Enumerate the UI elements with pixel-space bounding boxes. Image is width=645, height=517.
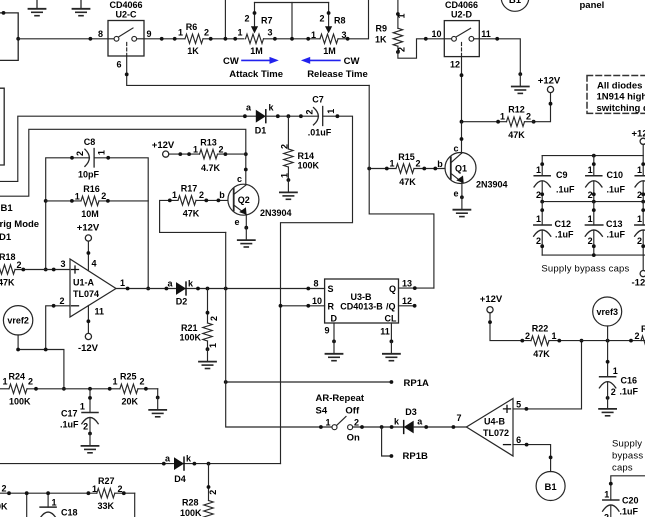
svg-text:S4: S4 bbox=[316, 405, 328, 416]
capacitor C9 bbox=[534, 156, 575, 202]
svg-text:47K: 47K bbox=[399, 177, 416, 187]
capacitor C10 bbox=[586, 156, 626, 202]
svg-text:1: 1 bbox=[178, 28, 183, 38]
ground bbox=[512, 74, 529, 93]
svg-text:10: 10 bbox=[312, 296, 322, 306]
svg-text:e: e bbox=[234, 217, 239, 227]
resistor R14 bbox=[279, 116, 319, 182]
svg-text:9: 9 bbox=[146, 29, 151, 39]
-12V terminal bbox=[78, 333, 99, 354]
svg-text:1: 1 bbox=[193, 145, 198, 155]
vref2 terminal bbox=[3, 306, 32, 335]
svg-text:1: 1 bbox=[604, 490, 609, 500]
junction R13 bbox=[244, 152, 248, 156]
svg-text:33K: 33K bbox=[98, 501, 115, 511]
diode D1 bbox=[246, 103, 275, 136]
junction bbox=[279, 304, 283, 308]
release CW arrow bbox=[301, 57, 340, 64]
svg-text:20K: 20K bbox=[122, 397, 139, 407]
node bbox=[209, 37, 213, 41]
capacitor C18 bbox=[40, 491, 78, 517]
junction bbox=[540, 200, 544, 204]
svg-text:rig Mode: rig Mode bbox=[0, 219, 39, 230]
svg-text:1: 1 bbox=[120, 278, 125, 288]
svg-text:Off: Off bbox=[345, 405, 360, 416]
svg-text:Supply: Supply bbox=[612, 438, 642, 449]
node bbox=[306, 304, 310, 308]
junction main row at x=18.2 bbox=[16, 37, 20, 41]
svg-text:1: 1 bbox=[637, 214, 642, 224]
node bbox=[162, 462, 166, 466]
-12 terminal bbox=[632, 271, 645, 289]
junction C17 bbox=[88, 387, 92, 391]
wire top bus between R7 and R8 wipers bbox=[255, 2, 329, 4]
svg-text:R2: R2 bbox=[641, 324, 645, 334]
wire +12V to R22 bbox=[490, 313, 531, 341]
resistor R21 bbox=[180, 289, 219, 352]
node bbox=[16, 348, 20, 352]
svg-text:R24: R24 bbox=[9, 372, 26, 382]
svg-text:2: 2 bbox=[637, 236, 642, 246]
resistor R23 (clipped) bbox=[634, 324, 645, 345]
svg-text:1: 1 bbox=[397, 13, 407, 18]
svg-text:c: c bbox=[237, 174, 242, 184]
ground bbox=[199, 349, 216, 368]
svg-text:47K: 47K bbox=[508, 130, 525, 140]
svg-text:2: 2 bbox=[28, 377, 33, 387]
svg-text:9: 9 bbox=[324, 326, 329, 336]
svg-text:2: 2 bbox=[101, 191, 106, 201]
svg-text:+12V: +12V bbox=[77, 223, 100, 234]
svg-text:+12V: +12V bbox=[152, 140, 175, 151]
node top-left stub dot bbox=[2, 11, 6, 15]
svg-text:1: 1 bbox=[613, 366, 618, 376]
node bbox=[557, 339, 561, 343]
svg-text:1M: 1M bbox=[323, 46, 336, 56]
ground bbox=[149, 398, 166, 417]
svg-text:C20: C20 bbox=[622, 496, 639, 506]
wire vref2 to R24 row bbox=[18, 335, 64, 389]
svg-text:2: 2 bbox=[209, 316, 219, 321]
svg-text:1: 1 bbox=[389, 159, 394, 169]
bottom row left (clipped) bbox=[0, 484, 97, 512]
node bbox=[319, 425, 323, 429]
wire R13 to Q2 collector line bbox=[218, 153, 246, 155]
svg-text:1K: 1K bbox=[375, 35, 387, 45]
node bbox=[87, 251, 91, 255]
svg-text:D1: D1 bbox=[0, 232, 12, 243]
svg-text:1: 1 bbox=[536, 165, 541, 175]
svg-text:bypass: bypass bbox=[612, 451, 643, 462]
svg-text:.1uF: .1uF bbox=[620, 387, 639, 397]
svg-text:1K: 1K bbox=[187, 46, 199, 56]
svg-text:D1: D1 bbox=[255, 126, 267, 136]
svg-text:R: R bbox=[328, 302, 335, 312]
junction R22 row bbox=[580, 339, 584, 343]
junction bbox=[44, 348, 48, 352]
resistor R12 bbox=[460, 105, 534, 141]
svg-text:RP1A: RP1A bbox=[404, 378, 429, 389]
svg-text:2: 2 bbox=[16, 260, 21, 270]
node bbox=[629, 339, 633, 343]
node bbox=[244, 168, 248, 172]
svg-text:100K: 100K bbox=[9, 397, 31, 407]
junction bbox=[290, 37, 294, 41]
svg-text:CL: CL bbox=[385, 314, 397, 324]
ground bbox=[453, 197, 470, 216]
svg-text:C17: C17 bbox=[61, 409, 78, 419]
+12 terminal (top right) bbox=[632, 129, 645, 145]
svg-text:.1uF: .1uF bbox=[555, 230, 574, 240]
svg-text:2: 2 bbox=[634, 331, 639, 341]
node bbox=[346, 37, 350, 41]
junction bbox=[641, 200, 645, 204]
svg-text:.1uF: .1uF bbox=[607, 230, 626, 240]
node bbox=[306, 37, 310, 41]
svg-text:2N3904: 2N3904 bbox=[476, 180, 508, 190]
svg-text:2: 2 bbox=[536, 236, 541, 246]
svg-text:2: 2 bbox=[611, 387, 616, 397]
svg-text:CD4066: CD4066 bbox=[445, 0, 478, 10]
node bbox=[390, 425, 394, 429]
svg-text:C10: C10 bbox=[607, 170, 624, 180]
wire R27 drop bbox=[134, 493, 136, 517]
node bbox=[460, 195, 464, 199]
svg-text:2: 2 bbox=[1, 484, 6, 494]
diode D4 bbox=[165, 454, 192, 485]
svg-text:1: 1 bbox=[96, 150, 106, 155]
junction RP1B bbox=[380, 425, 384, 429]
node bbox=[156, 396, 160, 400]
node bbox=[106, 156, 110, 160]
svg-text:1: 1 bbox=[311, 30, 316, 40]
node bbox=[460, 73, 464, 77]
junction bbox=[25, 491, 29, 495]
junction bbox=[224, 380, 228, 384]
junction R16 row bbox=[44, 199, 48, 203]
svg-text:Supply bypass caps: Supply bypass caps bbox=[541, 264, 629, 275]
wire branch x=26.7 down bbox=[26, 493, 28, 517]
svg-text:R22: R22 bbox=[532, 324, 549, 334]
node bbox=[413, 286, 417, 290]
svg-text:b: b bbox=[219, 190, 225, 200]
wire D3 to U4-B pin 7 bbox=[414, 426, 467, 428]
wire R9 to U2-D pin 10 bbox=[398, 39, 444, 58]
svg-text:100K: 100K bbox=[180, 508, 202, 517]
wire U2-C pin 9 to R6 bbox=[144, 38, 185, 40]
svg-text:1: 1 bbox=[325, 418, 330, 428]
svg-text:R16: R16 bbox=[83, 184, 100, 194]
svg-text:1: 1 bbox=[588, 165, 593, 175]
svg-text:11: 11 bbox=[380, 327, 390, 337]
svg-text:B1: B1 bbox=[509, 0, 522, 6]
node bbox=[276, 114, 280, 118]
svg-text:6: 6 bbox=[116, 60, 121, 70]
junction bbox=[592, 253, 596, 257]
node bbox=[126, 287, 130, 291]
svg-text:47K: 47K bbox=[0, 278, 15, 288]
svg-text:1: 1 bbox=[2, 377, 7, 387]
svg-text:Attack Time: Attack Time bbox=[229, 69, 283, 80]
node bbox=[413, 304, 417, 308]
node bbox=[452, 425, 456, 429]
svg-text:1: 1 bbox=[536, 214, 541, 224]
wire D4 row bbox=[0, 463, 281, 465]
svg-text:2: 2 bbox=[204, 28, 209, 38]
junction bbox=[592, 200, 596, 204]
svg-text:TL072: TL072 bbox=[483, 428, 509, 438]
svg-text:R7: R7 bbox=[261, 16, 273, 26]
svg-text:2: 2 bbox=[117, 484, 122, 494]
svg-text:1: 1 bbox=[551, 331, 556, 341]
svg-text:C7: C7 bbox=[312, 95, 324, 105]
svg-text:D2: D2 bbox=[176, 297, 188, 307]
node bbox=[193, 462, 197, 466]
wire U4-B pin 5 bbox=[513, 341, 582, 409]
node bbox=[424, 37, 428, 41]
wire R7 to R8 bbox=[264, 38, 321, 40]
node bbox=[332, 340, 336, 344]
svg-text:TL074: TL074 bbox=[73, 289, 99, 299]
wire U2-D pin 11 to ground bbox=[479, 39, 520, 74]
svg-text:2: 2 bbox=[75, 151, 85, 156]
svg-text:1: 1 bbox=[500, 112, 505, 122]
ground bbox=[326, 341, 343, 360]
svg-text:D3: D3 bbox=[405, 407, 417, 417]
wire +12 to cap top bus bbox=[542, 144, 643, 155]
node pin 8 lead bbox=[306, 287, 310, 291]
svg-text:2: 2 bbox=[208, 490, 218, 495]
svg-text:1N914 high s: 1N914 high s bbox=[597, 92, 645, 103]
svg-text:2: 2 bbox=[244, 14, 249, 24]
B1 terminal bbox=[536, 472, 565, 501]
wire top-left stub bbox=[0, 13, 18, 61]
resistor R27 bbox=[87, 476, 135, 511]
svg-text:panel: panel bbox=[580, 0, 605, 11]
svg-text:Q: Q bbox=[389, 284, 396, 294]
svg-text:2: 2 bbox=[139, 377, 144, 387]
capacitor C11 (clipped right) bbox=[635, 156, 645, 202]
svg-text:caps: caps bbox=[612, 463, 633, 474]
capacitor C20 (clipped bottom) bbox=[603, 476, 645, 517]
svg-text:D4: D4 bbox=[174, 474, 186, 484]
wire U1-A output row bbox=[116, 288, 325, 290]
svg-text:Q2: Q2 bbox=[238, 195, 250, 205]
svg-text:2: 2 bbox=[536, 190, 541, 200]
wire pin6 net down to U3-B Q bbox=[369, 85, 434, 288]
svg-text:vref2: vref2 bbox=[7, 316, 29, 326]
svg-text:R27: R27 bbox=[98, 476, 115, 486]
node bbox=[525, 443, 529, 447]
wire U3-B pin 13 (Q) bbox=[399, 287, 434, 289]
wire U4-B pin 6 to B1 bbox=[513, 445, 551, 472]
node bbox=[178, 152, 182, 156]
vref3 terminal bbox=[593, 297, 622, 326]
wire U2-D pin12 down to Q1 collector bbox=[461, 122, 463, 154]
wire vref3 stem bbox=[607, 326, 609, 341]
svg-text:.1uF: .1uF bbox=[607, 185, 626, 195]
junction vref3 bbox=[606, 339, 610, 343]
node bbox=[518, 72, 522, 76]
node pin 6 dot bbox=[125, 73, 129, 77]
ground bbox=[280, 180, 297, 199]
svg-text:11: 11 bbox=[481, 29, 491, 39]
svg-text:D: D bbox=[331, 314, 338, 324]
svg-text:47K: 47K bbox=[183, 209, 200, 219]
svg-text:1: 1 bbox=[326, 109, 336, 114]
svg-text:11: 11 bbox=[95, 307, 105, 317]
svg-text:2: 2 bbox=[319, 14, 324, 24]
svg-text:6: 6 bbox=[516, 435, 521, 445]
node bbox=[495, 37, 499, 41]
node bbox=[87, 319, 91, 323]
svg-text:10: 10 bbox=[431, 29, 441, 39]
junction pin3 row bbox=[44, 268, 48, 272]
svg-text:R12: R12 bbox=[508, 105, 525, 115]
svg-text:2: 2 bbox=[354, 418, 359, 428]
svg-text:Q1: Q1 bbox=[455, 164, 467, 174]
label Supply bypass caps (3 lines) bbox=[612, 438, 643, 473]
svg-text:1: 1 bbox=[92, 484, 97, 494]
svg-text:R17: R17 bbox=[181, 184, 198, 194]
wire U3-B pin 10 row bbox=[281, 305, 325, 307]
wire U2-C pin 6 bbox=[127, 56, 370, 85]
resistor R17 bbox=[160, 184, 228, 233]
svg-text:c: c bbox=[453, 144, 458, 154]
wire cap mid bus bbox=[542, 201, 645, 203]
junction bbox=[224, 37, 228, 41]
op-amp U1-A bbox=[70, 259, 116, 317]
wire S4 to D3 bbox=[353, 426, 404, 428]
junction bbox=[62, 387, 66, 391]
svg-text:10pF: 10pF bbox=[78, 170, 100, 180]
analog switch U2-C bbox=[108, 0, 144, 56]
wire RP1B drop bbox=[382, 427, 392, 456]
wire drop from top bus bbox=[291, 3, 293, 39]
node bbox=[488, 320, 492, 324]
node bbox=[532, 120, 536, 124]
wire U1-A pin 11 down bbox=[87, 306, 89, 334]
svg-text:R14: R14 bbox=[298, 151, 315, 161]
junction R21 bbox=[206, 287, 210, 291]
svg-text:2: 2 bbox=[637, 190, 642, 200]
capacitor C16 bbox=[599, 341, 638, 400]
svg-text:U2-C: U2-C bbox=[115, 10, 137, 20]
wire R25 to ground bbox=[157, 389, 159, 398]
wire bus to Q2 collector with left drop bbox=[0, 129, 246, 196]
svg-text:1: 1 bbox=[75, 191, 80, 201]
svg-text:4.7K: 4.7K bbox=[201, 163, 221, 173]
svg-text:100K: 100K bbox=[298, 161, 320, 171]
node bbox=[390, 340, 394, 344]
potentiometer R7 bbox=[237, 3, 272, 57]
ground bbox=[82, 434, 99, 453]
wire x=225.5 down to S4 bbox=[226, 232, 332, 427]
svg-text:2: 2 bbox=[83, 422, 88, 432]
svg-text:2: 2 bbox=[604, 513, 609, 517]
wire R22 to vref3 row bbox=[549, 340, 645, 342]
svg-text:B1: B1 bbox=[1, 203, 14, 214]
svg-text:10M: 10M bbox=[81, 209, 99, 219]
svg-text:5: 5 bbox=[516, 400, 521, 410]
node bbox=[549, 456, 553, 460]
capacitor C7 bbox=[305, 95, 336, 138]
svg-text:13: 13 bbox=[402, 279, 412, 289]
svg-text:12: 12 bbox=[450, 60, 460, 70]
flip-flop U3-B bbox=[325, 279, 399, 324]
+12V terminal bbox=[480, 294, 503, 313]
wire cap bottom bus bbox=[542, 254, 645, 256]
svg-text:7: 7 bbox=[456, 413, 461, 423]
svg-text:2: 2 bbox=[588, 190, 593, 200]
wire D1 cathode to C7 bbox=[266, 115, 319, 117]
svg-text:.1uF: .1uF bbox=[60, 420, 79, 430]
svg-text:b: b bbox=[437, 159, 443, 169]
svg-text:-12V: -12V bbox=[78, 343, 99, 354]
svg-text:2: 2 bbox=[305, 109, 315, 114]
ground bbox=[29, 0, 46, 16]
svg-text:R6: R6 bbox=[186, 22, 198, 32]
switch S4 bbox=[316, 405, 360, 443]
svg-text:/Q: /Q bbox=[386, 302, 396, 312]
junction bbox=[592, 154, 596, 158]
node bbox=[224, 152, 228, 156]
op-amp U4-B bbox=[466, 399, 513, 457]
svg-text:4: 4 bbox=[91, 259, 96, 269]
+12V terminal bbox=[77, 223, 100, 242]
node bbox=[360, 425, 364, 429]
wire +12V to R13 bbox=[169, 153, 200, 155]
svg-text:1: 1 bbox=[52, 498, 57, 508]
node bbox=[187, 152, 191, 156]
node bbox=[336, 114, 340, 118]
wire U3-B pin 9 to ground bbox=[333, 323, 335, 341]
svg-text:C18: C18 bbox=[61, 508, 78, 517]
wire C7 to net drop bbox=[281, 116, 353, 463]
svg-text:RP1B: RP1B bbox=[403, 451, 428, 462]
svg-text:C9: C9 bbox=[556, 170, 568, 180]
svg-text:8: 8 bbox=[313, 279, 318, 289]
potentiometer R8 bbox=[311, 3, 347, 57]
+12V terminal bbox=[538, 76, 561, 93]
resistor R6 bbox=[178, 22, 209, 56]
svg-text:U1-A: U1-A bbox=[73, 278, 95, 288]
svg-text:R9: R9 bbox=[375, 24, 387, 34]
node pin 8 dot bbox=[89, 37, 93, 41]
svg-text:U3-B: U3-B bbox=[350, 292, 372, 302]
junction R14 branch bbox=[287, 114, 291, 118]
B1 terminal circle (top, clipped) bbox=[501, 0, 529, 11]
svg-text:100K: 100K bbox=[180, 333, 202, 343]
svg-text:1: 1 bbox=[112, 377, 117, 387]
capacitor C13 bbox=[585, 202, 625, 256]
transistor Q2 bbox=[219, 174, 291, 227]
wire RP1A row bbox=[226, 381, 392, 383]
node D1 anode bbox=[243, 114, 247, 118]
node bbox=[52, 304, 56, 308]
svg-text:C16: C16 bbox=[621, 376, 638, 386]
wire U3-B pin 11 to ground bbox=[390, 323, 392, 341]
wire R8 pin3 up bbox=[338, 0, 369, 39]
wire C8 right to loop vertical bbox=[94, 158, 148, 289]
svg-text:+12V: +12V bbox=[538, 76, 561, 87]
analog switch U2-D bbox=[444, 0, 479, 57]
node bbox=[244, 226, 248, 230]
svg-text:1: 1 bbox=[80, 402, 85, 412]
resistor R24 bbox=[0, 372, 120, 407]
node bbox=[390, 454, 394, 458]
node bbox=[520, 339, 524, 343]
